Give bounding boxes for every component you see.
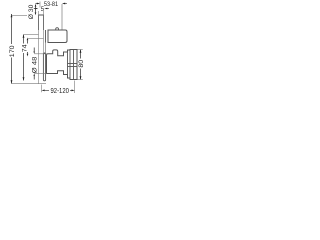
svg-text:Ø 48: Ø 48 bbox=[31, 56, 38, 73]
svg-text:92-120: 92-120 bbox=[51, 88, 69, 95]
svg-text:53-81: 53-81 bbox=[44, 1, 58, 8]
svg-text:74: 74 bbox=[22, 44, 29, 52]
svg-text:80: 80 bbox=[78, 59, 85, 67]
svg-text:Ø 30: Ø 30 bbox=[28, 4, 35, 19]
svg-text:170: 170 bbox=[9, 45, 16, 57]
